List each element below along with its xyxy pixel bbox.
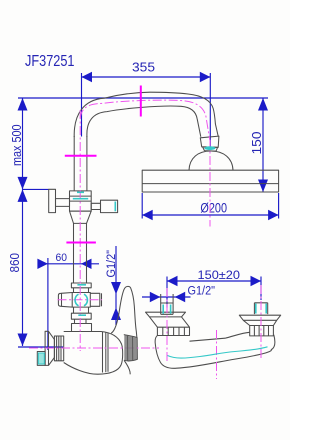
right view union left ribbed nut (157, 327, 189, 335)
lever collar shading lines (128, 336, 133, 361)
arrow 60 left pointing right (37, 259, 48, 269)
shower head disc outline (142, 170, 278, 192)
mixer body outline (64, 332, 123, 375)
extension line 150+-20 right (260, 277, 262, 301)
wall escutcheon flange (45, 331, 54, 365)
lever collar bottom arc (124, 360, 130, 374)
cyan seal cross bottom collar (78, 314, 86, 316)
diverter handle knob plate (49, 189, 56, 212)
cross valve right stub end face (101, 293, 103, 306)
wall supply stub (37, 352, 45, 366)
diverter outlet stem (91, 203, 100, 209)
spout end nut (200, 136, 219, 147)
cyan thread left union (163, 305, 170, 314)
cyan ball arc left (75, 294, 78, 306)
svg-text:60: 60 (56, 252, 68, 264)
tick spout top (140, 86, 142, 117)
cyan fill wall stub (38, 353, 44, 364)
right view union left flange disc (146, 312, 186, 317)
svg-text:JF37251: JF37251 (25, 53, 75, 70)
centerline mixer axis magenta (29, 347, 159, 349)
spout gooseneck inner edge (87, 106, 201, 137)
body inlet neck (75, 319, 87, 323)
wall escutcheon face line (48, 331, 50, 365)
extension line 150+-20 left (166, 277, 168, 308)
right view S-body outline (155, 332, 275, 368)
dimension line 60 (38, 263, 100, 265)
svg-text:G1/2": G1/2" (188, 286, 216, 298)
cyan joint ellipse at shower arm (204, 146, 215, 150)
diverter outlet block (101, 200, 118, 212)
lever collar band (124, 335, 138, 361)
arrow bowtie down (max500 bottom) (18, 177, 28, 190)
cross valve upper neck (74, 288, 89, 293)
right view union right flange disc (239, 315, 280, 320)
cyan thread right union (256, 304, 266, 314)
cross valve left stub end cap (61, 293, 63, 306)
right view union left cone (150, 317, 190, 327)
lever handle blade (111, 286, 137, 337)
riser pipe upper right edge (86, 136, 88, 191)
extension line d200 right (278, 193, 280, 219)
shower head ball dome (189, 151, 233, 170)
svg-text:860: 860 (7, 253, 22, 273)
arrow bowtie up (860 top) (18, 189, 28, 202)
tick riser upper (65, 155, 97, 157)
right view union right ribbed nut (250, 326, 274, 336)
cyan seal outlet block end (114, 202, 116, 212)
arrow 150 bottom down (258, 180, 268, 193)
gland nut outline (54, 336, 63, 361)
extension line at diverter top (23, 188, 49, 190)
arrow max500 top up (18, 98, 28, 111)
centerline cross port magenta (58, 299, 103, 301)
reference line max-height top (18, 97, 268, 99)
tick riser lower (66, 242, 96, 244)
cross valve left stub (58, 293, 72, 308)
svg-text:150±20: 150±20 (198, 270, 241, 282)
arrow G1/2 right view pointing left (175, 292, 186, 302)
body inlet port (72, 324, 92, 332)
extension line at wall axis (18, 346, 63, 348)
dimension line diam 200 (142, 214, 278, 216)
diverter collar outline (70, 191, 92, 211)
dimension line max 500 vertical (22, 98, 24, 189)
lever collar shading (124, 335, 137, 361)
diverter collar band line2 (70, 200, 92, 202)
arrow 60 right pointing left (81, 259, 92, 269)
dimension line 150+-20 (167, 280, 261, 282)
mixer body ring line1 (102, 332, 104, 373)
cyan seal cross top collar (77, 284, 86, 286)
extension line d200 left (141, 193, 143, 219)
cyan water wave line (168, 347, 268, 358)
arrow G1/2 left view down (111, 282, 121, 294)
dimension line 150 vertical (262, 98, 264, 192)
cyan seal diverter collar2 (73, 198, 88, 200)
arrow G1/2 right view pointing right (150, 292, 161, 302)
mixer cap inner ring (107, 333, 109, 372)
arrow d200 left (142, 210, 153, 220)
cyan ball arc right (84, 294, 87, 306)
arrow 150+-20 right (251, 276, 262, 286)
cross valve bottom collar (71, 313, 91, 319)
cross valve lower neck (74, 307, 89, 313)
dimension line G1/2 right view (142, 296, 191, 298)
svg-text:355: 355 (132, 60, 155, 75)
dimension line 860 vertical (22, 189, 24, 346)
spout gooseneck outer edge (74, 92, 218, 137)
extension line 60 left (47, 258, 49, 350)
shower head disc mid line (142, 183, 278, 185)
lower pipe left edge (73, 223, 75, 283)
centerline riser magenta (79, 110, 81, 351)
diverter collar band line1 (70, 195, 92, 197)
gland nut ribs (57, 336, 61, 361)
mixer body ring line2 (105, 332, 107, 372)
spout nut lower band (203, 147, 218, 151)
centerline middle construction magenta (216, 330, 218, 379)
right view union left thread stub (161, 294, 173, 314)
dimension line G1/2 left view (115, 246, 117, 325)
cross valve right stub (90, 293, 100, 306)
centerline spout curve magenta (80, 100, 210, 140)
arrow 150 top up (258, 98, 268, 111)
riser pipe upper left edge (73, 136, 75, 191)
arrow 355 left (82, 72, 93, 82)
svg-text:max 500: max 500 (10, 124, 24, 166)
lower pipe right edge (86, 223, 88, 283)
diverter body taper (70, 211, 92, 223)
centerline shower head magenta (209, 140, 211, 227)
centerline union left magenta (166, 288, 168, 362)
right view union right thread stub (254, 303, 267, 314)
arrow d200 right (268, 210, 279, 220)
diverter handle stem (56, 199, 70, 207)
arrow 150+-20 left (167, 276, 178, 286)
cyan seal diverter collar1 (77, 191, 84, 193)
right view union right cone (243, 320, 276, 325)
arrow 355 right (200, 72, 211, 82)
arrow G1/2 left view up (111, 308, 121, 321)
centerline union right magenta (260, 285, 262, 360)
arrow 860 bottom down (18, 334, 28, 347)
extension line 355 right (209, 73, 211, 149)
svg-text:150: 150 (249, 132, 264, 155)
cross valve top collar (71, 283, 91, 288)
svg-text:G1/2": G1/2" (106, 250, 118, 278)
svg-text:Ø200: Ø200 (200, 201, 227, 216)
dimension line 355 (82, 76, 211, 78)
extension line 355 left (81, 73, 83, 137)
cross valve center block (72, 293, 90, 308)
